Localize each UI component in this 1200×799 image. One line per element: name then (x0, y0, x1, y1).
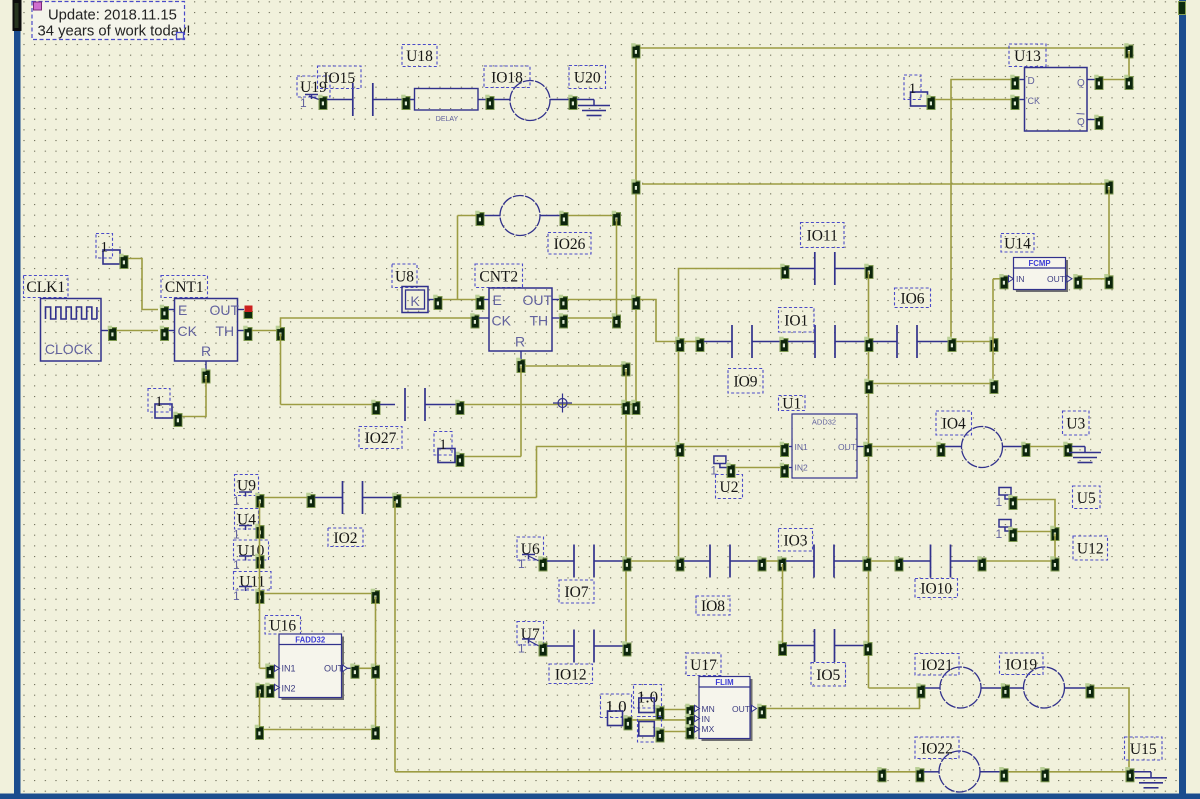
svg-text:E: E (493, 292, 502, 308)
svg-text:1: 1 (233, 494, 240, 508)
svg-text:U15: U15 (1130, 741, 1157, 758)
svg-text:IO2: IO2 (333, 530, 357, 547)
svg-text:TH: TH (530, 313, 549, 329)
svg-text:IN: IN (1016, 274, 1025, 284)
svg-text:E: E (178, 302, 187, 318)
svg-text:IO27: IO27 (365, 430, 397, 447)
svg-text:R: R (201, 343, 211, 359)
svg-text:1: 1 (233, 558, 240, 572)
svg-text:CLK1: CLK1 (26, 279, 65, 296)
svg-text:MX: MX (702, 724, 715, 734)
svg-text:U8: U8 (395, 268, 414, 285)
svg-text:ADD32: ADD32 (812, 418, 836, 427)
svg-text:IO19: IO19 (1005, 656, 1037, 673)
svg-text:IO21: IO21 (921, 657, 953, 674)
svg-text:1: 1 (996, 527, 1003, 541)
svg-text:IO7: IO7 (564, 584, 588, 601)
svg-text:U11: U11 (239, 573, 265, 590)
svg-text:1: 1 (909, 81, 917, 97)
svg-text:1.0: 1.0 (605, 697, 626, 716)
svg-text:CNT2: CNT2 (479, 268, 518, 285)
svg-text:FADD32: FADD32 (295, 635, 326, 644)
svg-text:IN2: IN2 (282, 684, 296, 694)
svg-text:U7: U7 (521, 626, 540, 643)
svg-text:IO3: IO3 (783, 532, 807, 549)
svg-text:U14: U14 (1004, 235, 1031, 252)
svg-text:U18: U18 (406, 48, 433, 65)
svg-text:IO6: IO6 (900, 290, 924, 307)
svg-text:IO8: IO8 (701, 598, 725, 615)
svg-text:IO22: IO22 (921, 740, 953, 757)
svg-text:K: K (410, 293, 420, 309)
svg-text:1: 1 (101, 239, 109, 255)
svg-text:FCMP: FCMP (1028, 259, 1050, 268)
svg-text:IO15: IO15 (323, 70, 355, 87)
svg-text:U12: U12 (1077, 541, 1104, 558)
svg-text:CNT1: CNT1 (165, 279, 204, 296)
svg-text:IN1: IN1 (795, 442, 809, 452)
svg-text:IO5: IO5 (816, 667, 840, 684)
svg-text:OUT: OUT (324, 664, 344, 674)
svg-text:Q: Q (1077, 117, 1085, 128)
svg-text:MN: MN (702, 704, 715, 714)
svg-text:U13: U13 (1014, 48, 1041, 65)
svg-text:IO12: IO12 (555, 666, 587, 683)
svg-text:D: D (1028, 76, 1035, 87)
svg-text:OUT: OUT (210, 302, 240, 318)
svg-text:CLOCK: CLOCK (45, 341, 94, 357)
svg-text:CK: CK (492, 313, 512, 329)
svg-text:U3: U3 (1066, 416, 1085, 433)
svg-text:Update: 2018.11.15: Update: 2018.11.15 (48, 8, 177, 24)
svg-text:IN1: IN1 (282, 664, 296, 674)
svg-text:FLIM: FLIM (715, 678, 733, 687)
svg-text:IO9: IO9 (733, 373, 757, 390)
svg-text:IO11: IO11 (807, 228, 838, 245)
svg-text:1: 1 (233, 589, 240, 603)
svg-text:1: 1 (233, 528, 240, 542)
svg-text:U16: U16 (269, 617, 296, 634)
svg-text:1: 1 (518, 557, 525, 571)
svg-text:IN: IN (702, 714, 711, 724)
svg-text:OUT: OUT (1047, 274, 1065, 284)
svg-text:34 years of work today!: 34 years of work today! (38, 24, 191, 40)
svg-text:U20: U20 (574, 70, 601, 87)
svg-text:1: 1 (518, 642, 525, 656)
svg-text:1: 1 (710, 464, 717, 478)
svg-text:U1: U1 (782, 396, 801, 413)
svg-text:IO1: IO1 (784, 312, 808, 329)
svg-text:OUT: OUT (838, 442, 856, 452)
svg-text:1: 1 (155, 394, 163, 410)
svg-text:IN2: IN2 (795, 463, 809, 473)
svg-text:U5: U5 (1077, 490, 1096, 507)
svg-text:OUT: OUT (523, 292, 553, 308)
svg-text:IO4: IO4 (942, 416, 966, 433)
svg-text:IO10: IO10 (920, 581, 952, 598)
svg-text:1: 1 (996, 495, 1003, 509)
svg-text:TH: TH (216, 323, 235, 339)
svg-text:OUT: OUT (732, 704, 750, 714)
svg-text:CK: CK (1028, 96, 1041, 106)
svg-text:U6: U6 (521, 541, 540, 558)
svg-text:DELAY: DELAY (436, 116, 459, 123)
svg-text:Q: Q (1077, 78, 1085, 89)
svg-text:CK: CK (178, 323, 198, 339)
svg-text:IO26: IO26 (554, 236, 586, 253)
svg-text:U2: U2 (720, 479, 739, 496)
svg-text:IO18: IO18 (491, 69, 523, 86)
svg-text:1: 1 (439, 437, 447, 453)
svg-text:1: 1 (300, 96, 307, 110)
svg-text:R: R (515, 334, 525, 350)
svg-text:U17: U17 (690, 657, 717, 674)
